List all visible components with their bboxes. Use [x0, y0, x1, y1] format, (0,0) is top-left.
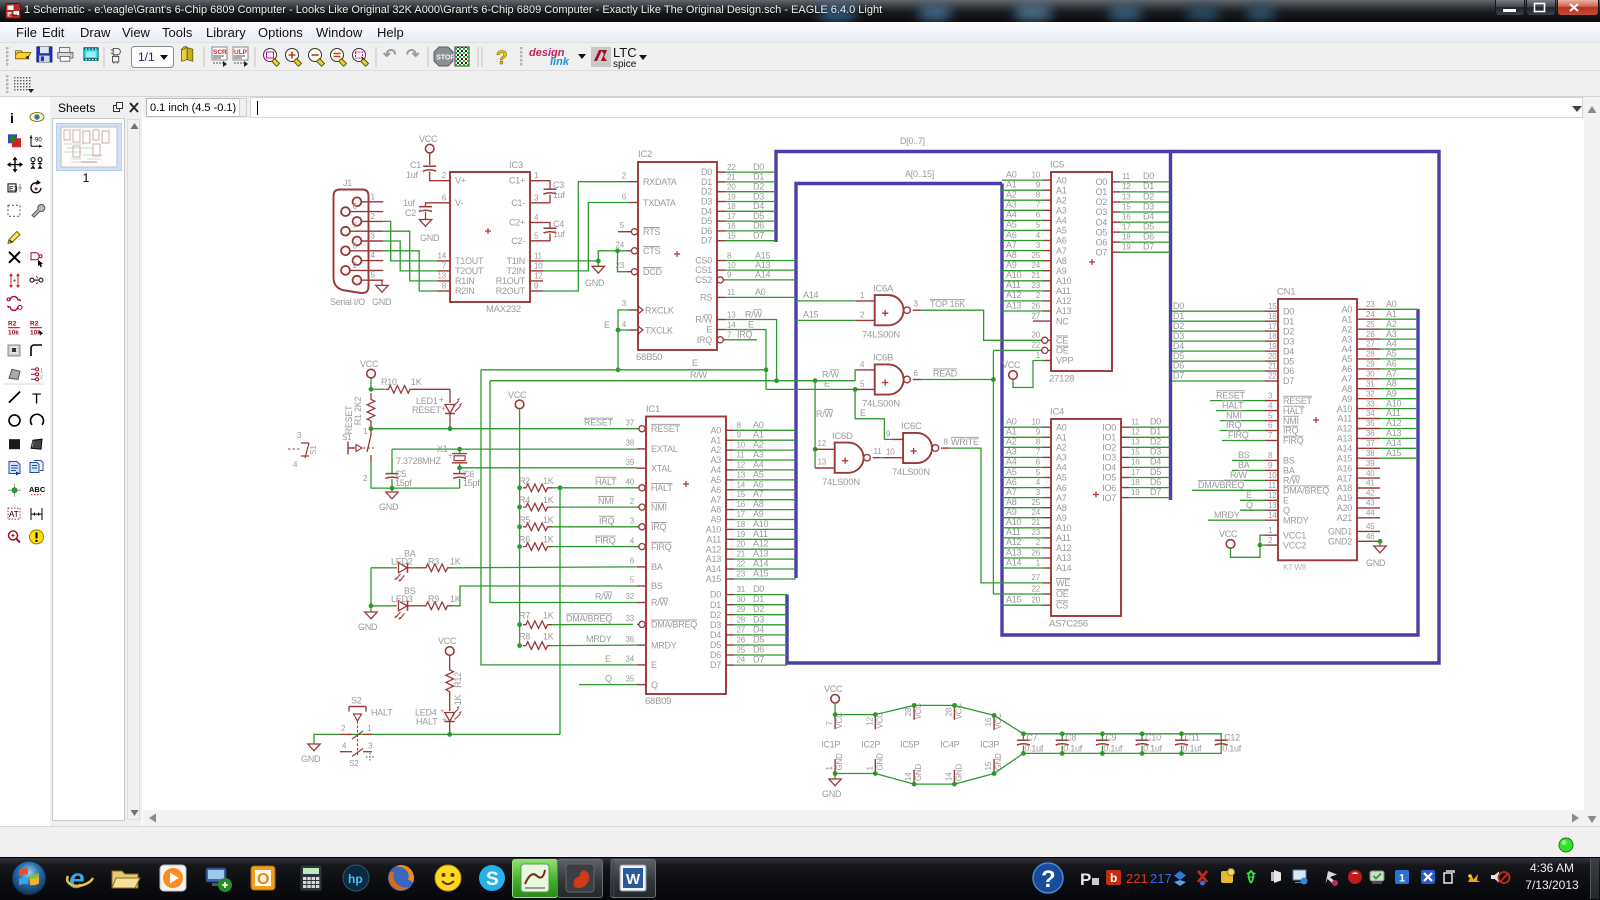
IC1 pin RESET 37 — [637, 428, 639, 430]
svg-text:A9: A9 — [1056, 266, 1067, 276]
svg-text:A7: A7 — [1006, 240, 1017, 250]
svg-text:3: 3 — [297, 431, 302, 440]
capacitor C3 1uf — [543, 180, 566, 203]
svg-text:19: 19 — [1268, 342, 1277, 351]
svg-text:D5: D5 — [1173, 351, 1184, 361]
svg-text:LED3: LED3 — [391, 594, 413, 604]
svg-text:E: E — [1283, 496, 1289, 506]
svg-text:W: W — [626, 871, 641, 888]
svg-text:3: 3 — [371, 232, 376, 241]
svg-text:36: 36 — [1366, 429, 1375, 438]
svg-text:CN1: CN1 — [1277, 287, 1295, 298]
svg-text:A1: A1 — [753, 430, 764, 440]
svg-text:IC3: IC3 — [509, 160, 523, 171]
svg-text:46: 46 — [1366, 532, 1375, 541]
svg-text:12: 12 — [1268, 491, 1277, 500]
svg-text:15: 15 — [1122, 202, 1131, 211]
svg-text:D4: D4 — [1143, 211, 1154, 221]
wire HALT to S2 — [349, 733, 560, 735]
svg-text:25: 25 — [1366, 320, 1375, 329]
svg-text:4: 4 — [1268, 401, 1273, 410]
svg-text:RESET: RESET — [651, 424, 681, 434]
svg-text:A1: A1 — [1386, 309, 1397, 319]
svg-text:9: 9 — [1036, 428, 1041, 437]
svg-text:D1: D1 — [753, 594, 764, 604]
svg-text:A8: A8 — [1341, 384, 1352, 394]
svg-text:14: 14 — [438, 251, 447, 260]
svg-text:26: 26 — [737, 636, 746, 645]
1/1 combo — [132, 47, 174, 68]
svg-text:VCC: VCC — [1219, 529, 1238, 539]
svg-text:IC5: IC5 — [1050, 160, 1064, 171]
svg-text:A5: A5 — [1006, 220, 1017, 230]
film/image — [84, 48, 98, 61]
svg-text:D7: D7 — [1283, 376, 1294, 386]
IC1 pin MRDY 36 — [637, 644, 646, 646]
save — [37, 47, 52, 62]
grid icon tb2 — [12, 75, 36, 95]
svg-text:DMA/BREQ: DMA/BREQ — [1283, 486, 1329, 496]
svg-text:D7: D7 — [710, 660, 721, 670]
svg-text:D2: D2 — [1143, 191, 1154, 201]
power VCC at IC5 VPP — [1009, 371, 1018, 380]
svg-text:8: 8 — [737, 421, 742, 430]
svg-text:0.1uf: 0.1uf — [1183, 744, 1203, 754]
stop sign — [434, 47, 455, 66]
svg-text:VCC2: VCC2 — [1283, 540, 1306, 550]
svg-text:A0: A0 — [1056, 422, 1067, 432]
wire XTAL — [460, 467, 637, 469]
svg-text:6: 6 — [1268, 421, 1273, 430]
svg-text:10: 10 — [737, 441, 746, 450]
svg-text:DCD: DCD — [643, 267, 662, 277]
svg-text:2: 2 — [860, 310, 865, 319]
svg-text:2: 2 — [630, 497, 635, 506]
power pins IC1P — [821, 712, 844, 776]
svg-text:3: 3 — [1036, 241, 1041, 250]
svg-text:R7: R7 — [519, 611, 530, 621]
svg-text:CS: CS — [1056, 600, 1068, 610]
svg-text:RTS: RTS — [643, 227, 660, 237]
svg-text:Q: Q — [651, 680, 658, 690]
svg-text:3: 3 — [368, 742, 373, 751]
svg-text:14: 14 — [944, 772, 953, 781]
svg-text:16: 16 — [984, 717, 993, 726]
svg-text:23: 23 — [1032, 528, 1041, 537]
svg-text:A0: A0 — [1006, 169, 1017, 179]
svg-text:GND: GND — [835, 753, 844, 771]
svg-text:1K: 1K — [543, 632, 554, 642]
svg-text:R8: R8 — [519, 632, 530, 642]
ground CN1 — [1379, 541, 1381, 546]
NAND gate IC6A 74LS00N — [856, 283, 921, 340]
svg-text:E: E — [651, 660, 657, 670]
svg-text:11: 11 — [727, 288, 736, 297]
svg-text:V-: V- — [455, 198, 463, 208]
svg-text:13: 13 — [727, 310, 736, 319]
svg-text:34: 34 — [626, 655, 635, 664]
svg-text:A8: A8 — [1006, 497, 1017, 507]
ground LEDs — [365, 612, 377, 619]
wire R/W to IC1 pin32 — [490, 381, 637, 603]
svg-text:A8: A8 — [1386, 378, 1397, 388]
wire Q label stub — [579, 684, 637, 686]
svg-text:6: 6 — [1036, 458, 1041, 467]
svg-text:A9: A9 — [710, 515, 721, 525]
svg-text:16: 16 — [1268, 312, 1277, 321]
capacitor C2 1uf — [403, 198, 437, 220]
svg-text:READ: READ — [933, 369, 958, 379]
svg-text:NC: NC — [1056, 316, 1069, 326]
svg-text:R6: R6 — [519, 535, 530, 545]
svg-text:6: 6 — [622, 193, 627, 202]
svg-text:MAX232: MAX232 — [486, 304, 521, 315]
capacitor C8 0.1uf — [1056, 731, 1083, 755]
svg-text:A12: A12 — [1056, 543, 1072, 553]
resistor R7 1K — [519, 611, 633, 629]
svg-text:D3: D3 — [1143, 201, 1154, 211]
svg-text:E: E — [824, 379, 830, 389]
IC5 27128 EPROM — [1002, 160, 1170, 385]
svg-text:15: 15 — [1131, 448, 1140, 457]
svg-text:D0: D0 — [701, 167, 712, 177]
svg-text:A10: A10 — [1056, 523, 1072, 533]
svg-text:20: 20 — [1032, 596, 1041, 605]
svg-text:A5: A5 — [1341, 354, 1352, 364]
svg-text:A13: A13 — [1337, 434, 1353, 444]
svg-text:FIRQ: FIRQ — [1228, 430, 1249, 440]
svg-text:2: 2 — [442, 171, 447, 180]
svg-text:A5: A5 — [710, 475, 721, 485]
svg-text:ABC: ABC — [29, 485, 46, 494]
svg-text:0.1uf: 0.1uf — [1024, 744, 1044, 754]
resistor R5 1K — [519, 515, 637, 531]
svg-text:R1OUT: R1OUT — [496, 276, 526, 286]
svg-text:15: 15 — [1268, 302, 1277, 311]
resistor R8 1K — [519, 632, 637, 650]
svg-text:A11: A11 — [1006, 280, 1021, 290]
svg-text:C2-: C2- — [511, 236, 525, 246]
svg-text:A3: A3 — [753, 450, 764, 460]
svg-text:25: 25 — [1032, 251, 1041, 260]
svg-text:24: 24 — [1366, 310, 1375, 319]
svg-text:A6: A6 — [710, 485, 721, 495]
svg-text:19: 19 — [727, 192, 736, 201]
svg-text:NMI: NMI — [651, 502, 667, 512]
svg-text:31: 31 — [737, 585, 746, 594]
svg-text:17: 17 — [737, 510, 746, 519]
svg-text:A1: A1 — [1056, 185, 1067, 195]
svg-text:A8: A8 — [710, 505, 721, 515]
svg-text:IRQ: IRQ — [1226, 420, 1242, 430]
svg-text:IC6A: IC6A — [873, 283, 894, 294]
svg-text:2: 2 — [371, 212, 376, 221]
svg-text:A17: A17 — [1337, 473, 1353, 483]
svg-text:9: 9 — [1036, 181, 1041, 190]
svg-text:28: 28 — [1366, 350, 1375, 359]
svg-text:A11: A11 — [1337, 414, 1352, 424]
svg-text:5: 5 — [534, 231, 539, 240]
svg-text:A12: A12 — [1386, 418, 1402, 428]
wire R2OUT to RXDATA — [543, 182, 629, 291]
svg-text:GND: GND — [822, 789, 842, 799]
IC1 pin BA 6 — [637, 566, 646, 568]
svg-text:IC1: IC1 — [646, 404, 660, 415]
svg-text:12: 12 — [865, 716, 874, 725]
svg-text:A11: A11 — [753, 529, 768, 539]
svg-text:HALT: HALT — [371, 708, 393, 718]
svg-text:4: 4 — [371, 251, 376, 260]
svg-text:e: e — [69, 863, 85, 894]
connector J1 (DB9 serial) — [330, 178, 383, 307]
svg-text:TXCLK: TXCLK — [645, 326, 673, 336]
svg-text:1: 1 — [371, 192, 376, 201]
svg-text:RS: RS — [700, 292, 712, 302]
power pins IC3P — [980, 713, 1003, 776]
svg-text:CE: CE — [1056, 336, 1068, 346]
svg-text:C8: C8 — [1065, 733, 1076, 743]
IC1 pin FIRQ 4 — [637, 546, 639, 548]
svg-text:90: 90 — [35, 137, 42, 143]
svg-text:IC2: IC2 — [638, 149, 652, 160]
svg-text:37: 37 — [1366, 439, 1375, 448]
svg-text:IRQ: IRQ — [737, 330, 753, 340]
svg-text:RESET: RESET — [1216, 390, 1246, 400]
svg-text:1K: 1K — [543, 535, 554, 545]
svg-text:6: 6 — [914, 369, 919, 378]
svg-text:D1: D1 — [701, 177, 712, 187]
checkered — [455, 47, 469, 66]
svg-text:13: 13 — [737, 470, 746, 479]
svg-text:17: 17 — [727, 212, 736, 221]
svg-text:STOP: STOP — [436, 55, 455, 62]
svg-text:21: 21 — [1268, 362, 1277, 371]
svg-text:R10: R10 — [381, 377, 397, 387]
svg-text:25: 25 — [1032, 498, 1041, 507]
svg-text:27128: 27128 — [1049, 374, 1074, 385]
svg-text:D0: D0 — [753, 584, 764, 594]
svg-text:A13: A13 — [1006, 300, 1022, 310]
svg-text:1uf: 1uf — [406, 170, 419, 180]
svg-text:GND: GND — [914, 764, 923, 782]
capacitor C7 0.1uf — [1017, 731, 1044, 755]
svg-text:D3: D3 — [1173, 331, 1184, 341]
svg-text:A1: A1 — [1341, 314, 1352, 324]
svg-text:IO0: IO0 — [1102, 422, 1116, 432]
svg-text:74LS00N: 74LS00N — [862, 329, 900, 340]
svg-text:8: 8 — [1036, 438, 1041, 447]
wire IC6D out to IC6C — [880, 457, 884, 459]
svg-text:27: 27 — [1032, 311, 1041, 320]
svg-text:17: 17 — [1268, 322, 1277, 331]
svg-text:1: 1 — [860, 291, 865, 300]
svg-text:D0: D0 — [1283, 306, 1294, 316]
svg-text:A4: A4 — [1006, 457, 1017, 467]
svg-text:A2: A2 — [1056, 195, 1067, 205]
svg-text:E: E — [706, 325, 712, 335]
svg-text:R/W: R/W — [1283, 476, 1301, 486]
svg-text:20: 20 — [737, 540, 746, 549]
ground decoupling — [834, 774, 836, 780]
svg-text:E3: E3 — [9, 186, 18, 193]
svg-text:hp: hp — [348, 872, 363, 886]
svg-text:11: 11 — [1122, 172, 1131, 181]
svg-text:A3: A3 — [710, 455, 721, 465]
svg-text:X1: X1 — [437, 444, 448, 454]
svg-text:A1: A1 — [710, 435, 721, 445]
svg-text:IC4P: IC4P — [940, 740, 959, 750]
svg-text:A11: A11 — [1056, 533, 1071, 543]
svg-text:A14: A14 — [753, 559, 769, 569]
wire EXTAL — [392, 448, 637, 450]
svg-text:39: 39 — [626, 458, 635, 467]
svg-text:C7: C7 — [1026, 733, 1037, 743]
IC1 68B09 CPU — [626, 404, 797, 707]
svg-text:26: 26 — [1366, 330, 1375, 339]
svg-text:GND: GND — [954, 764, 963, 782]
svg-text:VCC: VCC — [360, 359, 379, 369]
svg-text:A14: A14 — [1006, 557, 1022, 567]
svg-text:P: P — [1080, 870, 1091, 889]
svg-text:GND2: GND2 — [1328, 537, 1352, 547]
svg-text:10: 10 — [886, 447, 895, 456]
svg-text:D6: D6 — [1283, 366, 1294, 376]
svg-text:T2IN: T2IN — [506, 266, 525, 276]
switch S1 second pole — [288, 431, 318, 469]
wire net E — [481, 369, 766, 371]
svg-text:R2: R2 — [30, 321, 39, 328]
svg-text:A4: A4 — [1056, 463, 1067, 473]
svg-text:5: 5 — [1036, 221, 1041, 230]
svg-text:A14: A14 — [706, 564, 722, 574]
svg-text:IO6: IO6 — [1102, 483, 1116, 493]
svg-text:A7: A7 — [1056, 493, 1067, 503]
svg-text:A0: A0 — [1341, 305, 1352, 315]
svg-text:A9: A9 — [753, 509, 764, 519]
svg-text:0.1uf: 0.1uf — [1103, 744, 1123, 754]
svg-text:C9: C9 — [1105, 733, 1116, 743]
svg-text:NMI: NMI — [1283, 416, 1299, 426]
wire WRITE net — [949, 448, 1043, 583]
svg-text:IO5: IO5 — [1102, 473, 1116, 483]
svg-text:A[0..15]: A[0..15] — [905, 169, 934, 179]
capacitor C12 0.1uf — [1215, 733, 1242, 754]
ground at MAX232 net — [597, 261, 599, 266]
svg-text:D6: D6 — [753, 645, 764, 655]
svg-text:+: + — [418, 206, 423, 215]
svg-text:C3: C3 — [553, 180, 564, 190]
svg-text:CS2: CS2 — [695, 275, 712, 285]
svg-text:1K: 1K — [543, 515, 554, 525]
svg-text:AS7C256: AS7C256 — [1049, 619, 1088, 630]
svg-text:D3: D3 — [753, 191, 764, 201]
svg-text:68B09: 68B09 — [645, 696, 671, 707]
svg-text:NMI: NMI — [598, 496, 614, 506]
svg-text:14: 14 — [737, 480, 746, 489]
svg-text:GND1: GND1 — [1328, 527, 1352, 537]
op-amp IC3 MAX232 — [437, 160, 543, 315]
svg-text:BS: BS — [1238, 450, 1250, 460]
svg-text:1K: 1K — [543, 476, 554, 486]
svg-text:A6: A6 — [1386, 359, 1397, 369]
svg-text:A0: A0 — [1006, 417, 1017, 427]
svg-text:D5: D5 — [701, 216, 712, 226]
svg-text:A6: A6 — [753, 479, 764, 489]
wire HALT vertical to switch — [559, 488, 561, 735]
svg-text:34: 34 — [1366, 409, 1375, 418]
wire LED gnd column — [370, 568, 372, 612]
svg-text:22: 22 — [1032, 584, 1041, 593]
svg-text:A10: A10 — [1337, 404, 1353, 414]
svg-text:IC6D: IC6D — [832, 431, 853, 442]
ground S2 — [308, 744, 320, 751]
svg-text:21: 21 — [737, 550, 746, 559]
svg-text:D2: D2 — [1150, 437, 1161, 447]
svg-text:VCC: VCC — [1002, 360, 1021, 370]
svg-text:22: 22 — [727, 163, 736, 172]
svg-text:7: 7 — [825, 721, 834, 726]
svg-text:D2: D2 — [1173, 321, 1184, 331]
IC1 pin E 34 — [637, 664, 646, 666]
svg-text:A15: A15 — [1386, 448, 1402, 458]
svg-text:2: 2 — [363, 474, 368, 483]
svg-text:OE: OE — [1056, 346, 1069, 356]
svg-text:A0: A0 — [1386, 299, 1397, 309]
svg-text:D1: D1 — [1150, 427, 1161, 437]
IC4 AS7C256 RAM — [1002, 407, 1170, 630]
svg-text:C12: C12 — [1224, 733, 1240, 743]
svg-text:D7: D7 — [1173, 371, 1184, 381]
svg-text:A10: A10 — [753, 519, 769, 529]
svg-text:R/W: R/W — [745, 309, 763, 319]
svg-text:A0: A0 — [755, 287, 766, 297]
svg-text:IO7: IO7 — [1102, 493, 1116, 503]
svg-text:26: 26 — [1032, 301, 1041, 310]
svg-text:R2IN: R2IN — [455, 286, 475, 296]
svg-text:27: 27 — [1032, 573, 1041, 582]
svg-text:GND: GND — [585, 278, 605, 288]
svg-text:1K: 1K — [543, 611, 554, 621]
wire READ net — [921, 379, 993, 381]
svg-text:XTAL: XTAL — [651, 463, 672, 473]
svg-text:O2: O2 — [1095, 197, 1107, 207]
svg-text:IC2P: IC2P — [861, 740, 880, 750]
svg-text:A2: A2 — [1341, 324, 1352, 334]
svg-text:IO4: IO4 — [1102, 463, 1116, 473]
svg-text:GND: GND — [875, 753, 884, 771]
resistor R1 2K2 — [344, 393, 375, 434]
svg-text:A5: A5 — [753, 469, 764, 479]
power VCC at CN1 — [1226, 540, 1235, 549]
svg-text:BS: BS — [651, 581, 663, 591]
svg-text:A7: A7 — [710, 495, 721, 505]
resistor R12 1K — [446, 655, 463, 711]
wire J1.7 to R1IN — [383, 231, 437, 281]
svg-text:A10: A10 — [1006, 517, 1022, 527]
svg-text:R/W: R/W — [816, 409, 834, 419]
svg-text:1K: 1K — [450, 594, 461, 604]
svg-text:D1: D1 — [710, 600, 721, 610]
svg-text:D1: D1 — [1173, 311, 1184, 321]
svg-text:8: 8 — [944, 438, 949, 447]
svg-text:A4: A4 — [1056, 216, 1067, 226]
svg-text:9: 9 — [737, 431, 742, 440]
svg-text:E: E — [604, 320, 610, 330]
svg-text:O3: O3 — [1095, 207, 1107, 217]
svg-text:A13: A13 — [706, 554, 722, 564]
svg-text:217: 217 — [1150, 871, 1172, 886]
svg-text:IRQ: IRQ — [651, 522, 667, 532]
